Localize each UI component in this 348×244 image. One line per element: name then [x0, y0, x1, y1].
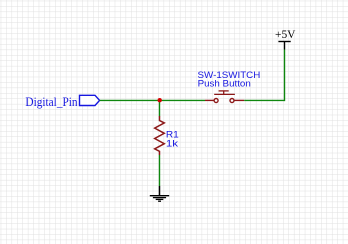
contact 2	[230, 99, 234, 103]
svg-text:Push Button: Push Button	[198, 78, 251, 88]
wire corner up to +5V	[284, 50, 286, 102]
svg-text:+5V: +5V	[275, 29, 296, 41]
contact 1	[214, 99, 218, 103]
power +5V	[275, 29, 296, 49]
svg-text:1k: 1k	[166, 138, 179, 148]
wire resistor to ground	[159, 155, 161, 186]
actuator cap	[219, 90, 229, 92]
wire junction down to resistor	[159, 100, 161, 116]
net port Digital_Pin	[25, 94, 99, 109]
resistor R1	[155, 116, 179, 155]
wire switch to corner	[244, 99, 284, 101]
pin 2 lead	[234, 99, 244, 101]
wire junction to switch	[160, 99, 205, 101]
pin 1 lead	[205, 99, 214, 101]
switch SW1 push button	[198, 70, 261, 103]
actuator stem	[223, 91, 225, 95]
junction dot	[158, 98, 162, 102]
wire pin to junction	[100, 99, 160, 101]
actuator bar	[214, 93, 235, 95]
svg-text:Digital_Pin: Digital_Pin	[25, 94, 78, 109]
ground	[150, 186, 169, 201]
